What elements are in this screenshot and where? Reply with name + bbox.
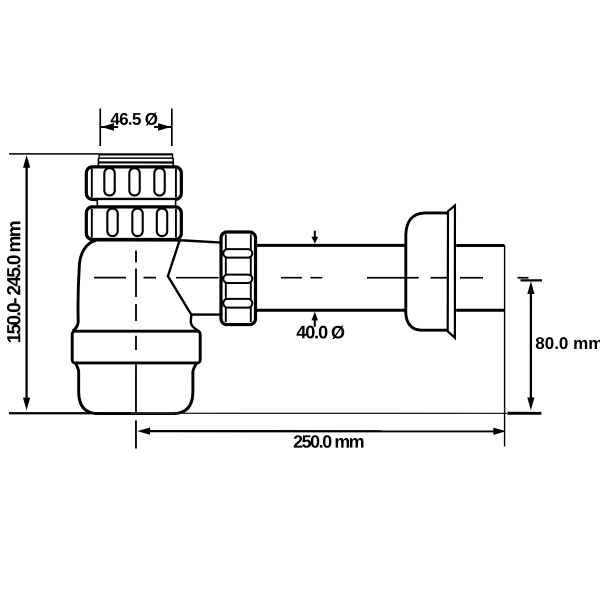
svg-text:40.0 Ø: 40.0 Ø: [296, 322, 345, 342]
svg-text:150.0- 245.0 mm: 150.0- 245.0 mm: [4, 220, 25, 343]
svg-text:46.5 Ø: 46.5 Ø: [110, 110, 158, 129]
svg-text:250.0 mm: 250.0 mm: [293, 432, 364, 452]
svg-text:80.0 mm: 80.0 mm: [535, 334, 600, 353]
